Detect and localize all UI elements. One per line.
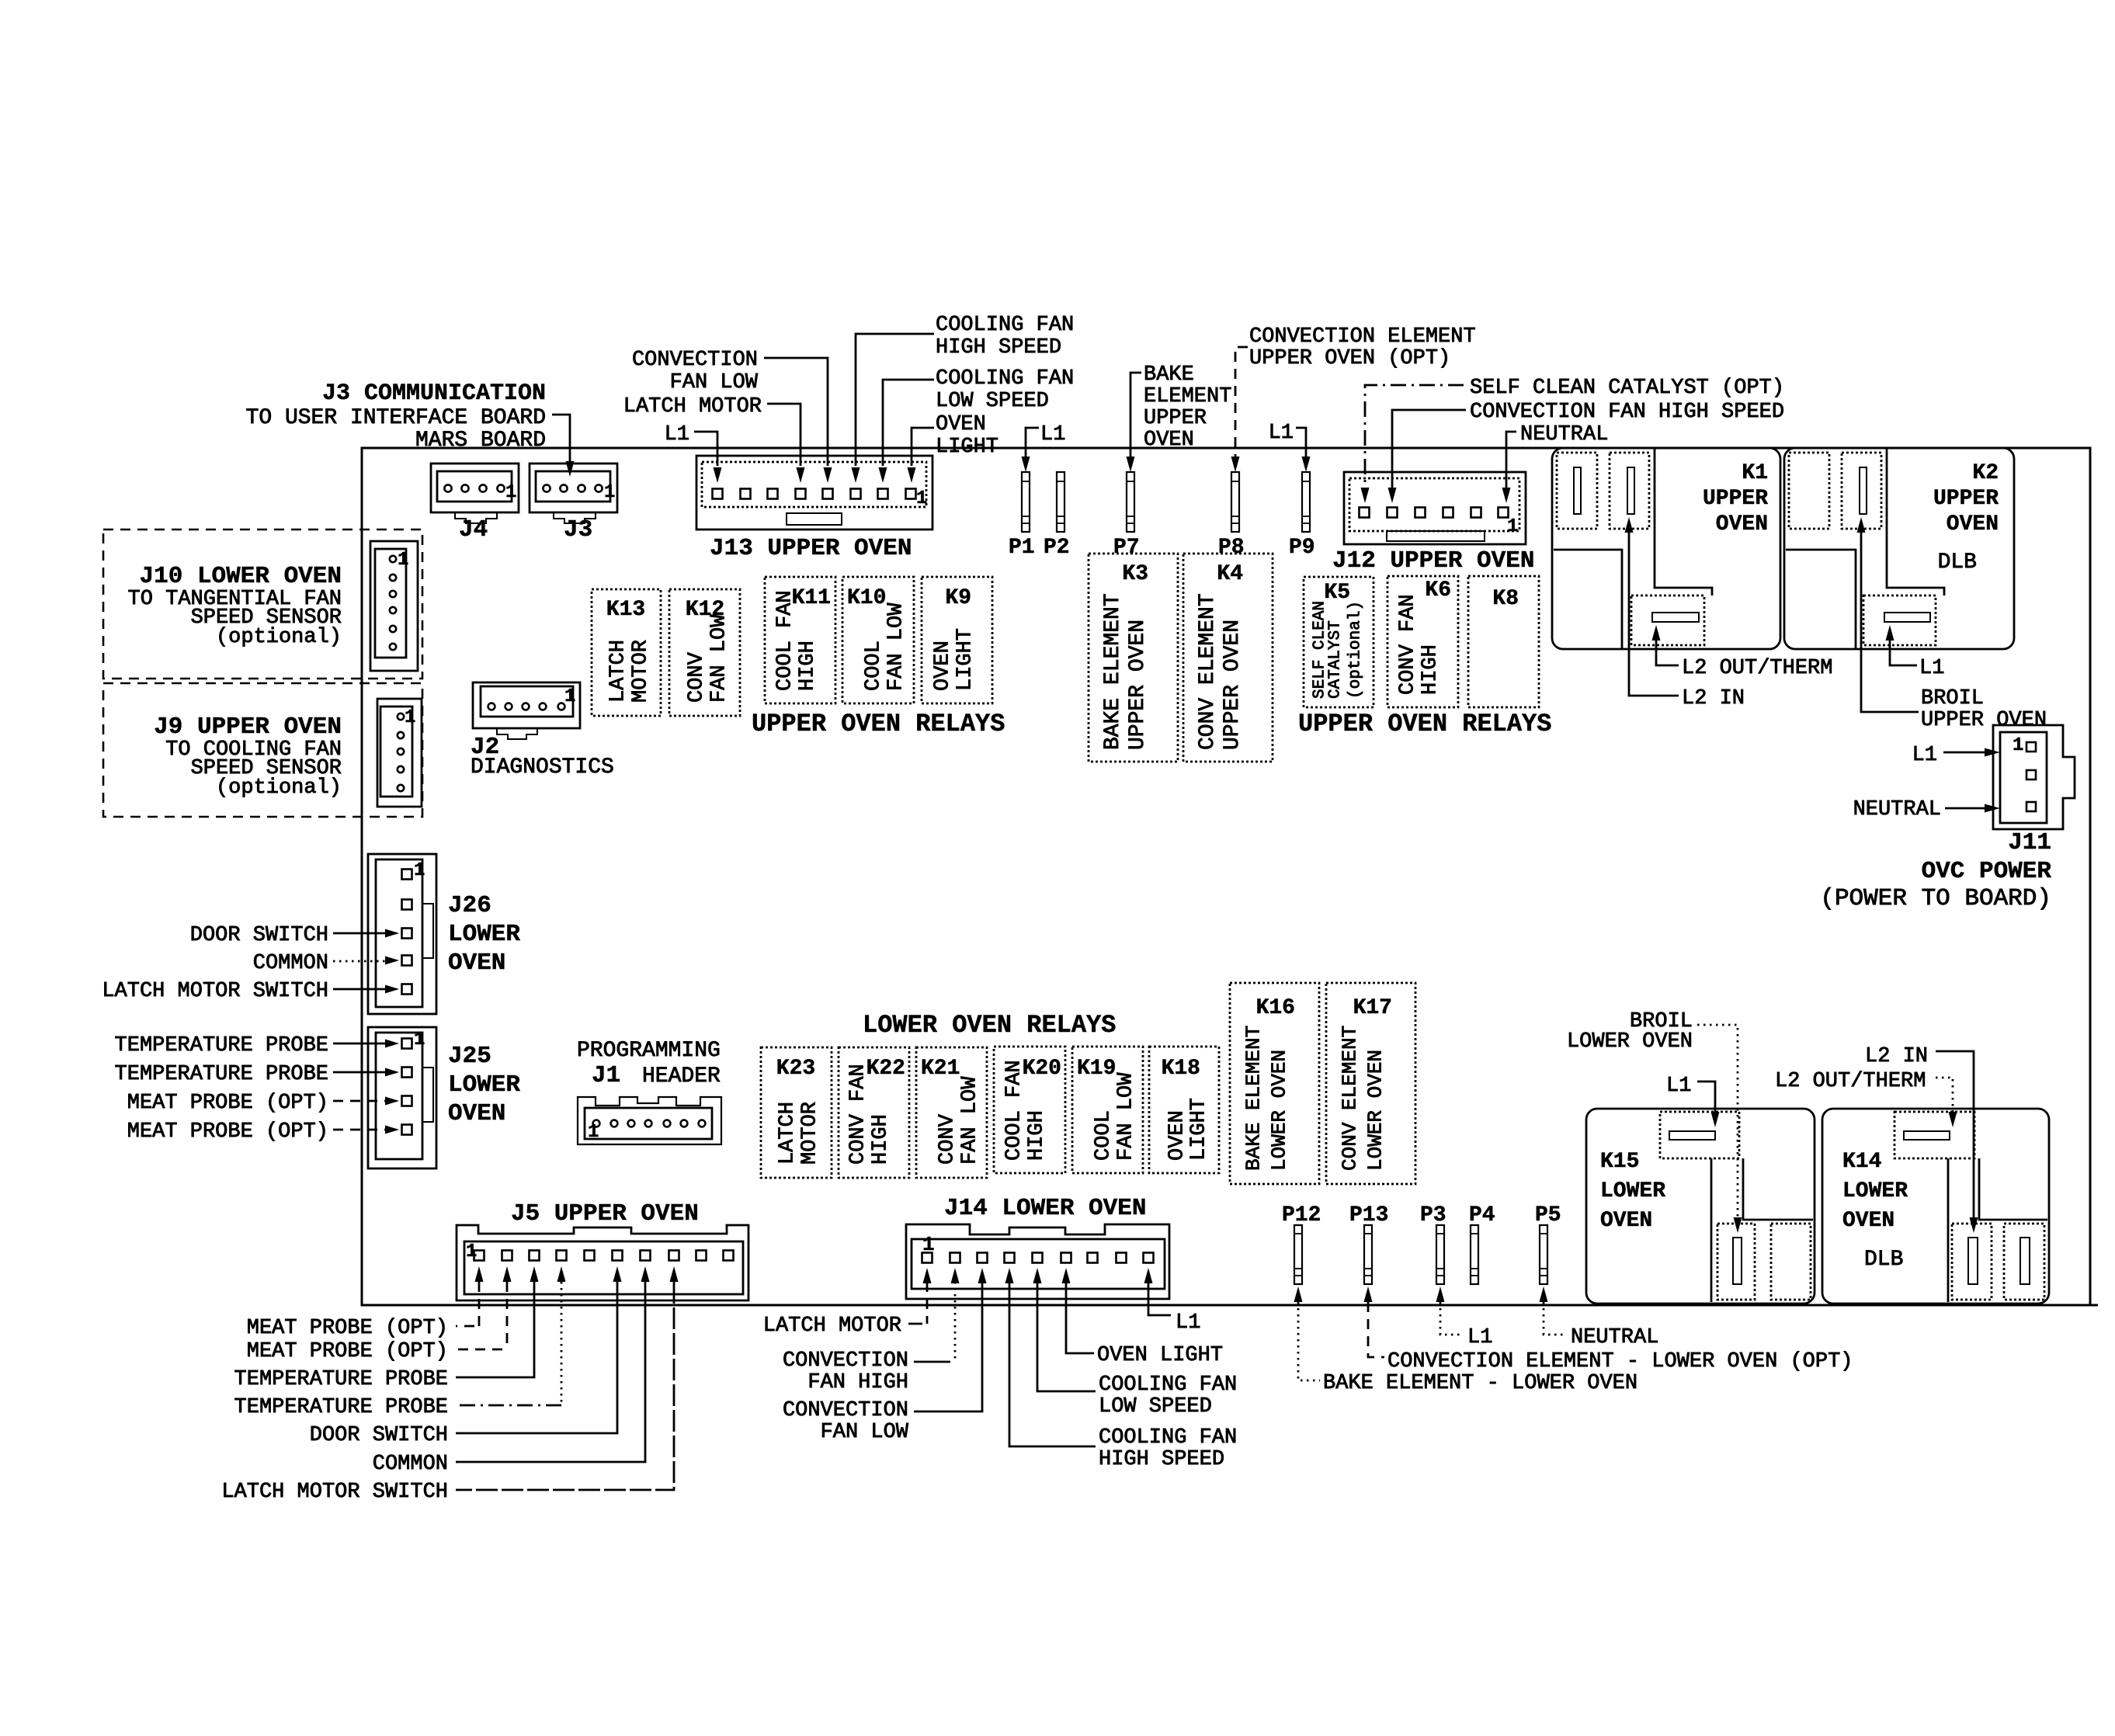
svg-text:LOWER: LOWER xyxy=(448,1071,520,1099)
svg-text:CONVECTION ELEMENT - LOWER OVE: CONVECTION ELEMENT - LOWER OVEN (OPT) xyxy=(1387,1350,1853,1373)
relay K8 xyxy=(1468,576,1539,707)
relay K11 xyxy=(765,577,835,703)
wire TEMPERATURE PROBE to J25 pin 1 xyxy=(333,1043,385,1045)
svg-text:(optional): (optional) xyxy=(1347,601,1365,699)
wire J14 pin4 to COOLING FAN HIGH SPEED xyxy=(1009,1282,1096,1446)
wire L1 to P9 xyxy=(1296,428,1306,457)
svg-text:TO USER INTERFACE BOARD: TO USER INTERFACE BOARD xyxy=(246,406,546,430)
svg-text:COOL FAN: COOL FAN xyxy=(1003,1060,1026,1161)
relay K2 upper oven xyxy=(1784,448,2014,649)
connector J5 upper oven xyxy=(457,1225,748,1300)
connector J4 xyxy=(431,464,519,512)
svg-text:HIGH: HIGH xyxy=(870,1114,893,1165)
svg-text:COMMON: COMMON xyxy=(253,952,328,975)
svg-text:P4: P4 xyxy=(1469,1203,1495,1227)
svg-text:COOLING FAN: COOLING FAN xyxy=(1099,1373,1237,1397)
svg-text:DLB: DLB xyxy=(1864,1248,1903,1272)
K1 terminal A xyxy=(1557,453,1597,529)
svg-text:CONV: CONV xyxy=(686,651,709,703)
svg-text:DIAGNOSTICS: DIAGNOSTICS xyxy=(471,755,614,779)
svg-text:DOOR SWITCH: DOOR SWITCH xyxy=(310,1424,448,1447)
svg-text:K14: K14 xyxy=(1842,1150,1881,1174)
svg-text:LOWER OVEN: LOWER OVEN xyxy=(1363,1050,1387,1171)
svg-text:UPPER: UPPER xyxy=(1703,487,1768,511)
relay K12 xyxy=(669,589,740,716)
svg-text:FAN LOW: FAN LOW xyxy=(959,1076,982,1165)
svg-text:OVEN: OVEN xyxy=(1144,429,1194,452)
svg-text:FAN LOW: FAN LOW xyxy=(1115,1072,1138,1161)
wire J14 pin2 to CONVECTION FAN HIGH (dotted) xyxy=(954,1282,957,1362)
svg-text:K4: K4 xyxy=(1217,562,1243,586)
K14 terminal L2 IN (slotted) xyxy=(1952,1224,1992,1300)
wire LATCH MOTOR SWITCH to J26 pin 5 xyxy=(333,988,385,991)
svg-text:MOTOR: MOTOR xyxy=(630,640,653,703)
wire MEAT PROBE to J25 pin 3 (dashed) xyxy=(333,1100,385,1102)
wire L2 OUT/THERM to K14 top terminal xyxy=(1936,1078,1953,1112)
K1 lower terminal L2 OUT/THERM xyxy=(1631,595,1704,645)
svg-text:NEUTRAL: NEUTRAL xyxy=(1520,423,1608,446)
svg-text:OVC POWER: OVC POWER xyxy=(1922,858,2052,885)
svg-text:K22: K22 xyxy=(866,1057,905,1081)
svg-text:1: 1 xyxy=(398,550,408,571)
svg-text:J5 UPPER OVEN: J5 UPPER OVEN xyxy=(511,1200,699,1227)
svg-text:P2: P2 xyxy=(1044,536,1070,560)
svg-text:P7: P7 xyxy=(1113,536,1140,560)
svg-text:(optional): (optional) xyxy=(216,626,342,649)
svg-text:K17: K17 xyxy=(1353,996,1392,1020)
wire J5 pin1 to MEAT PROBE (dashed) xyxy=(478,1282,481,1326)
svg-text:HIGH SPEED: HIGH SPEED xyxy=(1099,1448,1224,1471)
connector P1 xyxy=(1022,472,1030,532)
wire BROIL LOWER OVEN to K15 terminal (dotted) xyxy=(1697,1025,1738,1217)
board outline (control board edge) xyxy=(362,448,2090,1305)
svg-text:K9: K9 xyxy=(945,586,971,610)
wire L1 to K15 top terminal xyxy=(1697,1082,1715,1112)
svg-text:P8: P8 xyxy=(1218,536,1245,560)
wire J5 pin2 to MEAT PROBE (dashed) xyxy=(506,1282,509,1349)
K2 interior partition xyxy=(1786,550,1856,648)
svg-text:(optional): (optional) xyxy=(216,776,342,800)
svg-text:CATALYST: CATALYST xyxy=(1327,620,1345,699)
relay K23 xyxy=(761,1047,832,1178)
svg-text:K2: K2 xyxy=(1972,461,1999,485)
svg-text:L1: L1 xyxy=(1176,1311,1200,1335)
svg-text:BAKE ELEMENT: BAKE ELEMENT xyxy=(1101,593,1125,750)
wire J14 pin9 to L1 xyxy=(1148,1282,1171,1315)
svg-text:LATCH: LATCH xyxy=(607,640,630,703)
connector P4 xyxy=(1471,1225,1478,1284)
svg-text:LATCH MOTOR: LATCH MOTOR xyxy=(763,1314,901,1338)
svg-text:K16: K16 xyxy=(1256,996,1295,1020)
K15 terminal BROIL (slotted) xyxy=(1717,1224,1755,1300)
svg-text:LIGHT: LIGHT xyxy=(936,436,998,459)
svg-text:LOWER OVEN: LOWER OVEN xyxy=(1267,1050,1290,1171)
svg-text:UPPER OVEN (OPT): UPPER OVEN (OPT) xyxy=(1249,347,1450,370)
wire CONVECTION ELEMENT to P8 (dashed) xyxy=(1235,347,1248,457)
wire P13 to CONVECTION ELEMENT (dashed) xyxy=(1364,1286,1373,1302)
connector J10 xyxy=(370,541,418,671)
svg-text:L1: L1 xyxy=(1919,657,1944,680)
svg-text:BAKE: BAKE xyxy=(1144,363,1194,387)
svg-text:OVEN: OVEN xyxy=(1716,512,1768,536)
option box J10 (dashed) xyxy=(103,529,422,679)
svg-text:J11: J11 xyxy=(2008,829,2051,856)
relay K13 xyxy=(592,589,661,716)
connector J3 xyxy=(530,464,617,512)
connector J11 OVC power xyxy=(1993,725,2075,829)
connector P3 xyxy=(1436,1225,1444,1284)
svg-text:K18: K18 xyxy=(1162,1057,1200,1081)
svg-text:J10 LOWER OVEN: J10 LOWER OVEN xyxy=(140,563,342,590)
svg-text:OVEN: OVEN xyxy=(1842,1209,1894,1233)
svg-text:TEMPERATURE PROBE: TEMPERATURE PROBE xyxy=(115,1034,328,1057)
svg-text:K1: K1 xyxy=(1742,461,1768,485)
wire J14 pin6 to OVEN LIGHT xyxy=(1066,1282,1094,1353)
svg-text:OVEN: OVEN xyxy=(448,950,505,977)
svg-text:BAKE ELEMENT: BAKE ELEMENT xyxy=(1242,1026,1265,1171)
svg-text:L2 OUT/THERM: L2 OUT/THERM xyxy=(1682,657,1832,680)
svg-text:J25: J25 xyxy=(448,1043,491,1070)
wire CONVECTION FAN HIGH SPEED to J12 pin 2 xyxy=(1392,410,1466,489)
svg-text:K3: K3 xyxy=(1122,562,1148,586)
svg-text:1: 1 xyxy=(2013,735,2023,756)
wire OVEN LIGHT to J13 pin 8 xyxy=(912,428,934,466)
svg-text:HIGH: HIGH xyxy=(1026,1110,1049,1161)
svg-text:1: 1 xyxy=(414,1029,425,1050)
svg-text:L2 IN: L2 IN xyxy=(1865,1045,1928,1068)
svg-text:J1: J1 xyxy=(592,1062,620,1089)
svg-text:OVEN: OVEN xyxy=(1166,1110,1189,1161)
svg-text:LOW SPEED: LOW SPEED xyxy=(1099,1395,1212,1418)
svg-text:CONV ELEMENT: CONV ELEMENT xyxy=(1196,593,1220,750)
svg-text:CONV FAN: CONV FAN xyxy=(1397,594,1420,695)
svg-text:CONVECTION ELEMENT: CONVECTION ELEMENT xyxy=(1249,325,1476,349)
svg-text:L1: L1 xyxy=(1666,1075,1691,1098)
svg-text:CONV ELEMENT: CONV ELEMENT xyxy=(1338,1026,1361,1171)
svg-text:OVEN: OVEN xyxy=(932,641,955,691)
svg-text:J4: J4 xyxy=(459,516,488,543)
svg-text:LOWER OVEN RELAYS: LOWER OVEN RELAYS xyxy=(863,1011,1116,1040)
wire L2 OUT/THERM to K1 lower terminal xyxy=(1652,625,1661,641)
svg-text:1: 1 xyxy=(604,482,615,503)
relay K4 xyxy=(1183,554,1273,762)
svg-text:FAN LOW: FAN LOW xyxy=(708,614,731,703)
connector J1 programming header xyxy=(578,1097,721,1144)
relay K10 xyxy=(842,577,914,703)
svg-text:MEAT PROBE (OPT): MEAT PROBE (OPT) xyxy=(247,1317,448,1340)
svg-text:OVEN: OVEN xyxy=(1600,1209,1652,1233)
svg-text:UPPER OVEN RELAYS: UPPER OVEN RELAYS xyxy=(752,710,1005,738)
svg-text:K19: K19 xyxy=(1077,1057,1116,1081)
relay K1 upper oven xyxy=(1552,448,1780,649)
wire L1 to K2 lower terminal xyxy=(1886,625,1894,641)
svg-text:FAN LOW: FAN LOW xyxy=(670,371,759,394)
svg-text:ELEMENT: ELEMENT xyxy=(1144,385,1231,408)
wire L1 to J11 pin 1 xyxy=(1943,752,1985,754)
wire BAKE ELEMENT UPPER OVEN to P7 xyxy=(1130,373,1141,457)
wire J5 pin3 to TEMPERATURE PROBE xyxy=(456,1282,534,1377)
svg-text:OVEN: OVEN xyxy=(1947,512,1999,536)
wire P5 to NEUTRAL (dotted) xyxy=(1540,1286,1548,1302)
connector J26 lower oven xyxy=(368,854,436,1014)
svg-text:P13: P13 xyxy=(1349,1203,1388,1227)
svg-text:J3: J3 xyxy=(564,516,592,543)
svg-text:L2 IN: L2 IN xyxy=(1682,687,1745,710)
wire J5 pin6 to DOOR SWITCH xyxy=(456,1282,617,1433)
svg-text:K15: K15 xyxy=(1600,1150,1639,1174)
svg-text:LOWER: LOWER xyxy=(1600,1179,1665,1203)
svg-text:UPPER OVEN: UPPER OVEN xyxy=(1221,620,1245,750)
relay K5 xyxy=(1304,577,1374,707)
svg-text:LIGHT: LIGHT xyxy=(1188,1098,1211,1161)
svg-text:LOWER OVEN: LOWER OVEN xyxy=(1567,1030,1693,1054)
wire COMMON to J26 pin 4 xyxy=(333,960,385,963)
svg-text:NEUTRAL: NEUTRAL xyxy=(1571,1326,1658,1349)
svg-text:MARS BOARD: MARS BOARD xyxy=(415,429,546,453)
svg-text:L1: L1 xyxy=(1467,1326,1492,1349)
relay K3 xyxy=(1089,554,1178,762)
svg-text:UPPER OVEN: UPPER OVEN xyxy=(1921,709,2047,732)
relay K14 lower oven xyxy=(1822,1109,2049,1304)
svg-text:TEMPERATURE PROBE: TEMPERATURE PROBE xyxy=(234,1396,448,1419)
wire NEUTRAL to J12 pin 6 xyxy=(1506,432,1516,489)
svg-text:1: 1 xyxy=(922,1233,935,1256)
relay K17 xyxy=(1326,983,1415,1184)
svg-text:HIGH: HIGH xyxy=(1419,644,1443,695)
wire L1 to P1 xyxy=(1026,428,1039,457)
svg-text:CONVECTION: CONVECTION xyxy=(783,1399,908,1422)
svg-text:LIGHT: LIGHT xyxy=(954,628,978,691)
svg-text:K8: K8 xyxy=(1492,587,1519,611)
K14 top terminal L2 OUT/THERM xyxy=(1894,1112,1974,1158)
svg-text:L1: L1 xyxy=(1269,422,1294,445)
wire BROIL UPPER OVEN to K2 terminal B xyxy=(1857,517,1866,533)
K1 terminal B xyxy=(1610,453,1649,529)
connector J25 lower oven xyxy=(368,1027,436,1168)
connector P9 xyxy=(1302,472,1310,532)
svg-text:J14 LOWER OVEN: J14 LOWER OVEN xyxy=(944,1195,1146,1222)
svg-text:1: 1 xyxy=(466,1241,477,1262)
svg-text:LATCH MOTOR SWITCH: LATCH MOTOR SWITCH xyxy=(221,1481,448,1504)
relay K22 xyxy=(839,1047,909,1178)
svg-text:CONVECTION: CONVECTION xyxy=(783,1349,908,1373)
svg-text:HEADER: HEADER xyxy=(642,1064,721,1088)
svg-text:TEMPERATURE PROBE: TEMPERATURE PROBE xyxy=(115,1063,328,1086)
connector P2 xyxy=(1057,472,1064,532)
svg-text:P1: P1 xyxy=(1009,536,1035,560)
relay K6 xyxy=(1387,576,1458,707)
svg-text:L1: L1 xyxy=(1040,423,1065,446)
svg-text:CONVECTION: CONVECTION xyxy=(632,349,758,372)
relay K15 lower oven xyxy=(1586,1109,1815,1304)
svg-text:1: 1 xyxy=(564,686,575,707)
wire NEUTRAL to J11 pin 3 xyxy=(1945,807,1985,810)
wire L2 IN to K1 terminal B xyxy=(1625,517,1634,533)
svg-text:COOL FAN: COOL FAN xyxy=(774,590,797,691)
wire J14 pin5 to COOLING FAN LOW SPEED xyxy=(1037,1282,1096,1391)
svg-text:MEAT PROBE (OPT): MEAT PROBE (OPT) xyxy=(127,1120,328,1144)
svg-text:UPPER OVEN: UPPER OVEN xyxy=(1126,620,1150,750)
svg-text:COOL: COOL xyxy=(1092,1110,1116,1161)
relay K21 xyxy=(916,1047,987,1178)
svg-text:J9 UPPER OVEN: J9 UPPER OVEN xyxy=(154,713,342,741)
wire J5 pin4 to TEMPERATURE PROBE (dash-dot) xyxy=(561,1282,563,1405)
svg-text:LATCH MOTOR SWITCH: LATCH MOTOR SWITCH xyxy=(102,980,328,1003)
svg-text:L1: L1 xyxy=(1912,744,1937,767)
svg-text:OVEN: OVEN xyxy=(448,1100,505,1127)
svg-text:CONVECTION FAN HIGH SPEED: CONVECTION FAN HIGH SPEED xyxy=(1470,401,1784,424)
connector P5 xyxy=(1540,1225,1547,1284)
svg-text:SELF CLEAN CATALYST (OPT): SELF CLEAN CATALYST (OPT) xyxy=(1470,377,1784,400)
K15 top terminal L1 xyxy=(1660,1112,1739,1158)
wire LATCH MOTOR to J13 pin 4 xyxy=(767,404,801,466)
svg-text:K13: K13 xyxy=(606,598,645,622)
svg-text:K23: K23 xyxy=(776,1057,815,1081)
svg-text:BROIL: BROIL xyxy=(1921,687,1984,710)
connector J14 lower oven xyxy=(906,1224,1169,1299)
wire COOLING FAN LOW SPEED to J13 pin 7 xyxy=(883,380,934,466)
wire MEAT PROBE to J25 pin 4 (dashed) xyxy=(333,1129,385,1131)
svg-text:OVEN: OVEN xyxy=(936,413,986,436)
svg-text:DLB: DLB xyxy=(1938,550,1977,575)
connector P7 xyxy=(1127,472,1134,532)
svg-text:1: 1 xyxy=(405,707,415,728)
K15 terminal (empty) xyxy=(1771,1224,1811,1300)
svg-text:MOTOR: MOTOR xyxy=(799,1102,822,1165)
K1 interior partition xyxy=(1554,550,1622,648)
svg-text:1: 1 xyxy=(505,482,516,503)
svg-text:(POWER TO BOARD): (POWER TO BOARD) xyxy=(1820,885,2051,912)
svg-text:L1: L1 xyxy=(665,423,689,446)
svg-text:K21: K21 xyxy=(921,1057,960,1081)
svg-text:CONV FAN: CONV FAN xyxy=(847,1064,870,1165)
svg-text:P9: P9 xyxy=(1289,536,1315,560)
svg-text:COOLING FAN: COOLING FAN xyxy=(1099,1426,1237,1450)
connector J9 xyxy=(377,699,422,807)
svg-text:J13 UPPER OVEN: J13 UPPER OVEN xyxy=(710,535,912,562)
svg-text:J3 COMMUNICATION: J3 COMMUNICATION xyxy=(322,380,546,407)
svg-text:TEMPERATURE PROBE: TEMPERATURE PROBE xyxy=(234,1368,448,1391)
svg-text:1: 1 xyxy=(1507,516,1518,537)
svg-text:HIGH: HIGH xyxy=(797,641,820,691)
svg-text:COMMON: COMMON xyxy=(373,1453,448,1476)
svg-text:MEAT PROBE (OPT): MEAT PROBE (OPT) xyxy=(247,1340,448,1363)
svg-text:P3: P3 xyxy=(1420,1203,1446,1227)
relay K18 xyxy=(1149,1047,1219,1173)
connector J13 upper oven xyxy=(696,456,932,529)
svg-text:K6: K6 xyxy=(1425,578,1451,602)
svg-text:P12: P12 xyxy=(1282,1203,1321,1227)
wire J14 pin1 to LATCH MOTOR (dashed) xyxy=(926,1282,929,1324)
wire L2 IN to K14 terminal xyxy=(1936,1051,1974,1217)
relay K16 xyxy=(1230,983,1319,1184)
svg-text:CONV: CONV xyxy=(936,1113,960,1165)
svg-text:MEAT PROBE (OPT): MEAT PROBE (OPT) xyxy=(127,1092,328,1115)
svg-text:LOWER: LOWER xyxy=(1842,1179,1908,1203)
K2 lower terminal L1 xyxy=(1863,595,1936,645)
svg-text:COOLING FAN: COOLING FAN xyxy=(936,367,1074,391)
svg-text:FAN HIGH: FAN HIGH xyxy=(807,1371,908,1394)
svg-text:1: 1 xyxy=(414,860,425,881)
wire COOLING FAN HIGH SPEED to J13 pin 6 xyxy=(856,334,934,466)
relay K19 xyxy=(1072,1047,1143,1173)
svg-text:LATCH MOTOR: LATCH MOTOR xyxy=(623,395,762,418)
svg-text:J12 UPPER OVEN: J12 UPPER OVEN xyxy=(1332,547,1534,575)
svg-text:FAN LOW: FAN LOW xyxy=(821,1421,909,1444)
svg-text:LOWER: LOWER xyxy=(448,921,520,948)
svg-text:PROGRAMMING: PROGRAMMING xyxy=(577,1039,721,1063)
wire TEMPERATURE PROBE to J25 pin 2 xyxy=(333,1071,385,1074)
K2 terminal B xyxy=(1842,453,1881,529)
svg-text:UPPER OVEN RELAYS: UPPER OVEN RELAYS xyxy=(1298,710,1551,738)
K15 interior partition xyxy=(1710,1158,1713,1302)
wire P12 to BAKE ELEMENT (dotted) xyxy=(1294,1286,1303,1302)
svg-text:1: 1 xyxy=(588,1122,599,1143)
connector P12 xyxy=(1294,1225,1302,1284)
K14 terminal (slotted right) xyxy=(2004,1224,2044,1300)
svg-text:K10: K10 xyxy=(847,586,886,610)
svg-text:K20: K20 xyxy=(1023,1057,1061,1081)
svg-text:OVEN LIGHT: OVEN LIGHT xyxy=(1097,1344,1223,1367)
connector P13 xyxy=(1364,1225,1372,1284)
connector J12 upper oven xyxy=(1344,472,1526,544)
svg-text:UPPER: UPPER xyxy=(1933,487,1999,511)
svg-text:BAKE ELEMENT - LOWER OVEN: BAKE ELEMENT - LOWER OVEN xyxy=(1323,1372,1637,1395)
svg-text:COOL: COOL xyxy=(863,641,886,691)
svg-text:K11: K11 xyxy=(792,586,831,610)
wire CONVECTION FAN LOW to J13 pin 5 xyxy=(764,358,828,466)
svg-text:DOOR SWITCH: DOOR SWITCH xyxy=(190,924,328,947)
wire P3 to L1 (dotted) xyxy=(1436,1286,1445,1302)
svg-text:P5: P5 xyxy=(1535,1203,1561,1227)
connector J2 diagnostics xyxy=(473,682,580,728)
svg-text:NEUTRAL: NEUTRAL xyxy=(1853,798,1941,821)
svg-text:LOW SPEED: LOW SPEED xyxy=(936,390,1049,413)
relay K9 xyxy=(922,577,992,703)
connector P8 xyxy=(1231,472,1239,532)
wire J5 pin8 to LATCH MOTOR SWITCH xyxy=(456,1282,674,1490)
K2 terminal A xyxy=(1789,453,1829,529)
svg-text:J26: J26 xyxy=(448,892,491,919)
option box J9 (dashed) xyxy=(103,683,422,817)
svg-text:FAN LOW: FAN LOW xyxy=(885,602,908,691)
wire J14 pin3 to CONVECTION FAN LOW xyxy=(914,1282,982,1411)
wire J5 pin7 to COMMON xyxy=(456,1282,645,1462)
wire SELF CLEAN CATALYST to J12 pin 1 (dash-dot) xyxy=(1365,385,1464,489)
svg-text:UPPER: UPPER xyxy=(1144,407,1207,430)
wire J3 COMMUNICATION to J3 xyxy=(552,415,570,463)
K14 interior partition xyxy=(1947,1158,1950,1302)
svg-text:HIGH SPEED: HIGH SPEED xyxy=(936,336,1061,359)
wire L1 to J13 pin 1 xyxy=(694,432,717,466)
svg-text:LATCH: LATCH xyxy=(776,1102,800,1165)
relay K20 xyxy=(994,1047,1065,1173)
svg-text:COOLING FAN: COOLING FAN xyxy=(936,314,1074,337)
svg-text:1: 1 xyxy=(916,488,927,509)
svg-text:L2 OUT/THERM: L2 OUT/THERM xyxy=(1775,1070,1926,1093)
wire DOOR SWITCH to J26 pin 3 xyxy=(333,932,385,935)
